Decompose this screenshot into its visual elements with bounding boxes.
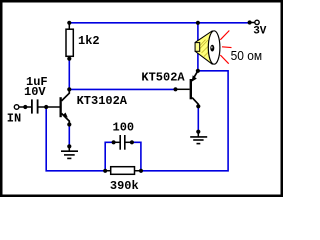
svg-text:10V: 10V [24,85,46,99]
node: rail/speaker [196,21,200,25]
svg-text:IN: IN [7,112,21,126]
svg-text:1k2: 1k2 [78,34,100,48]
terminal IN [14,105,19,110]
svg-text:KT502A: KT502A [141,71,185,85]
speaker LS1 [195,31,220,64]
node: 390k left junction [103,169,107,173]
svg-text:100: 100 [113,121,135,135]
node: Q1 emitter pin [67,122,71,126]
wire: KT3102A emitter to ground [68,125,70,147]
node: cap C1 left pin [23,105,27,109]
svg-text:3V: 3V [253,26,267,38]
transistor Q1 KT3102A [60,89,70,124]
svg-text:50 ом: 50 ом [231,48,263,63]
node: ground pin right [196,130,200,134]
capacitor C2 100 [114,135,132,150]
resistor R2 390k [105,167,141,175]
node: ground pin left [67,144,71,148]
node: rail/1k2 [67,21,71,25]
node: rail/3V pin [248,20,252,24]
wire: cap100 left lead [105,142,113,171]
wire: top supply rail [69,22,249,24]
transistor Q2 KT502A [176,71,199,107]
node: cap C1 right pin / base node [44,105,48,109]
wire: KT502A collector to ground [197,106,199,131]
resistor R1 1k2 [66,23,73,59]
wire: base node down and right to 390k [46,107,105,171]
node: Q2 collector pin [196,104,200,108]
node: cap C2 right pin [130,140,134,144]
wire: cap100 right lead [132,142,141,171]
node: cap C2 left pin [112,140,116,144]
svg-text:390k: 390k [110,179,139,193]
ground under Q1 emitter [61,146,78,158]
wire: 1k2 bottom to collector node [68,59,70,90]
node: collector junction [67,87,71,91]
ground under Q2 collector [190,132,207,144]
terminal 3V [250,20,260,24]
node: Q2 base pin [173,87,177,91]
node: speaker/emitter node [196,69,200,73]
wire: feedback from emitter node down to 390k right [141,71,228,171]
node: 390k right junction [139,169,143,173]
wire: collector node to KT502A base [69,88,175,90]
node: 1k2 bottom pin [67,57,71,61]
svg-text:KT3102A: KT3102A [77,94,128,108]
border frame [1,1,282,196]
speaker sound waves [220,31,231,64]
capacitor C1 1uF 10V [19,99,60,113]
wire: rail junction down through speaker to emitter node [197,23,199,71]
